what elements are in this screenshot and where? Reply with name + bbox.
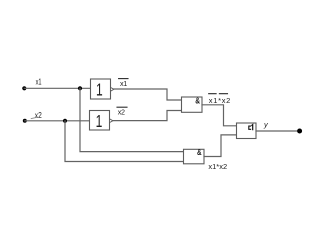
inverter gate DD1 (NOT, x1)	[91, 79, 114, 100]
svg-text:&: &	[197, 148, 202, 157]
junction J2 on x2 rail	[63, 119, 67, 123]
inverter gate DD2 (NOT, x2)	[90, 111, 113, 132]
wire x2 to AND2 bottom input	[65, 121, 184, 162]
svg-text:x1*x2: x1*x2	[209, 96, 231, 105]
node x1 input terminal	[22, 86, 26, 90]
AND gate DD3 (x̄1·x̄2)	[182, 96, 203, 112]
label x̄1*x̄2	[209, 94, 231, 105]
OR gate DD5 (output stage)	[237, 123, 257, 139]
node x2 input terminal	[23, 119, 27, 123]
svg-text:1: 1	[96, 80, 103, 100]
svg-text:x1: x1	[120, 79, 127, 88]
wire AND1 output to OR top input	[202, 105, 237, 126]
svg-text:&: &	[195, 96, 200, 105]
wire x1 rail	[24, 87, 90, 89]
wire x2 rail	[25, 120, 90, 122]
svg-text:x1: x1	[36, 78, 42, 87]
label NOT x1 output (x1 with overline)	[119, 79, 128, 88]
svg-text:x2: x2	[35, 111, 42, 120]
svg-text:x1*x2: x1*x2	[208, 162, 227, 171]
tick mark under label x2	[31, 117, 37, 118]
wire NOT2 output to AND1 bottom input	[113, 111, 182, 121]
wire x1 to AND2 top input	[80, 88, 184, 151]
node y output terminal	[297, 129, 302, 134]
junction J1 on x1 rail	[78, 86, 82, 90]
label NOT x2 output (x2 with overline)	[117, 107, 127, 116]
wire OR output to terminal y	[256, 130, 300, 132]
wire AND2 output to OR bottom input	[204, 135, 237, 157]
wire NOT1 output to AND1 top input	[114, 89, 182, 100]
svg-text:x2: x2	[118, 108, 125, 117]
AND gate DD4 (x1·x2)	[184, 148, 205, 164]
svg-text:1: 1	[96, 111, 103, 131]
